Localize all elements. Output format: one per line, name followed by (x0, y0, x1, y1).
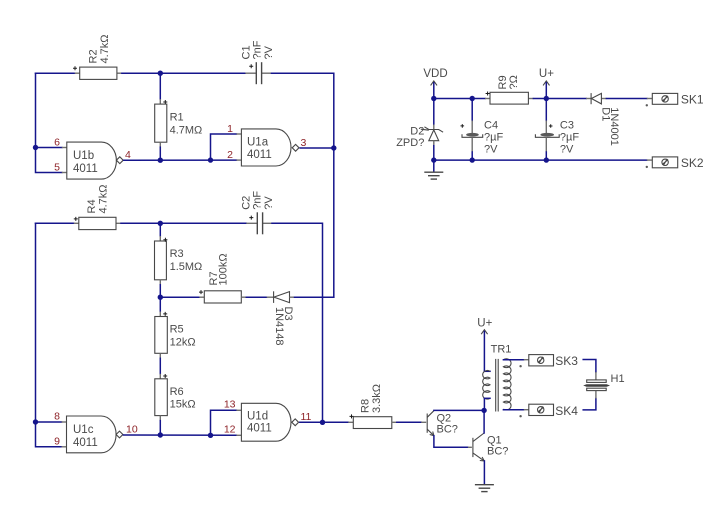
wire U1a output (300, 147, 334, 149)
svg-text:D2: D2 (410, 125, 424, 137)
node U+ at TR1 (477, 317, 492, 371)
diode D3 (267, 291, 334, 345)
svg-text:?V: ?V (484, 144, 498, 156)
zener diode D2 (396, 99, 443, 161)
resistor R1 (155, 73, 203, 160)
wire SK3 to H1 (583, 360, 596, 373)
svg-text:U1b: U1b (73, 150, 94, 162)
junction R1 bottom (158, 158, 163, 163)
junction pin1/pin2 tie (208, 157, 213, 162)
junction U1d out / C2 / R8 (320, 420, 325, 425)
svg-text:U+: U+ (539, 68, 554, 80)
svg-text:U1d: U1d (247, 410, 268, 422)
wire TR1 secondary bottom to SK4 (503, 409, 528, 411)
svg-text:8: 8 (54, 411, 60, 423)
junction R6 bottom (158, 432, 163, 437)
resistor R8 (348, 384, 397, 429)
svg-text:R5: R5 (170, 324, 184, 336)
svg-text:?µF: ?µF (560, 131, 579, 143)
wire Q2 emitter to Q1 base (434, 436, 472, 448)
svg-text:U1a: U1a (247, 136, 269, 148)
capacitor C4 (461, 99, 504, 161)
svg-text:BC?: BC? (487, 446, 508, 458)
resistor R2 (73, 34, 117, 79)
wire Q2 collector net (434, 409, 484, 411)
connector SK1 (646, 92, 704, 106)
transistor Q1 (473, 433, 509, 461)
svg-text:4011: 4011 (247, 423, 272, 435)
svg-text:R3: R3 (170, 248, 184, 260)
junction VDD / top rail (431, 96, 436, 101)
diode D1 (591, 93, 620, 146)
wire U1c output to U1d inputs (124, 410, 242, 435)
junction R2/R1/C1 node (158, 71, 163, 76)
junction Q2C/Q1C/TR1 node (481, 408, 486, 413)
ground at D2 (424, 172, 443, 179)
svg-text:ZPD?: ZPD? (396, 137, 424, 149)
svg-text:2: 2 (227, 149, 233, 161)
svg-text:U1c: U1c (73, 424, 94, 436)
wire left rail oscillator 1 (36, 73, 67, 172)
wire Q1 collector (483, 410, 485, 433)
svg-text:C3: C3 (560, 119, 574, 131)
connector SK3 (519, 354, 578, 368)
svg-text:C4: C4 (484, 119, 498, 131)
op-amp U1a nand gate (241, 129, 299, 166)
svg-text:?µF: ?µF (484, 131, 503, 143)
resistor R6 (155, 374, 196, 435)
earpiece H1 (583, 373, 624, 391)
wire R8 to Q2 base (397, 421, 426, 423)
svg-text:4011: 4011 (73, 437, 98, 449)
junction rail2/pin8 (33, 419, 38, 424)
capacitor C2 (240, 191, 275, 235)
svg-text:SK4: SK4 (555, 404, 578, 418)
svg-text:1.5MΩ: 1.5MΩ (170, 261, 203, 273)
connector SK4 (519, 404, 578, 418)
wire top oscillator 2 (36, 223, 323, 422)
wire D2 to ground (433, 160, 435, 172)
op-amp U1b nand gate (67, 142, 123, 179)
wire U1b output to U1a inputs (124, 134, 242, 160)
svg-text:1: 1 (227, 123, 233, 135)
transistor Q2 (427, 411, 458, 436)
op-amp U1c nand gate (67, 416, 123, 453)
op-amp U1d nand gate (241, 403, 298, 441)
svg-text:TR1: TR1 (491, 344, 512, 356)
svg-text:4.7MΩ: 4.7MΩ (170, 124, 203, 136)
wire top rail (434, 98, 653, 100)
svg-text:?V: ?V (560, 144, 574, 156)
junction pin13/pin12 tie (208, 433, 213, 438)
resistor R9 (486, 75, 529, 104)
ground at Q1 (475, 485, 494, 492)
svg-text:R1: R1 (170, 112, 184, 124)
resistor R5 (155, 297, 196, 374)
svg-text:15kΩ: 15kΩ (170, 398, 196, 410)
junction C3 / bottom rail (544, 157, 549, 162)
svg-text:SK3: SK3 (555, 354, 578, 368)
svg-text:5: 5 (54, 161, 60, 173)
junction R4/R3/C2 node (158, 221, 163, 226)
svg-text:4: 4 (125, 149, 131, 161)
svg-text:13: 13 (224, 398, 236, 410)
capacitor C3 (535, 99, 579, 161)
junction C4 / top rail (470, 96, 475, 101)
resistor R3 (155, 223, 203, 297)
wire U1d output (300, 421, 349, 423)
node U+ top (539, 68, 554, 99)
svg-text:12: 12 (224, 423, 236, 435)
svg-text:11: 11 (301, 411, 312, 423)
capacitor C1 (240, 40, 275, 84)
svg-text:R6: R6 (170, 386, 184, 398)
resistor R4 (74, 184, 116, 229)
junction U1a out / C1 / D3 vertical (331, 145, 336, 150)
svg-text:R9?Ω: R9?Ω (497, 75, 520, 89)
transformer TR1 (483, 344, 512, 412)
node VDD (423, 68, 447, 99)
svg-text:6: 6 (54, 136, 60, 148)
svg-text:10: 10 (126, 423, 138, 435)
svg-text:4011: 4011 (73, 163, 98, 175)
junction R3/R7/R5 node (158, 295, 163, 300)
wire top oscillator 1 (36, 73, 334, 297)
wire SK4 to H1 (583, 399, 596, 410)
svg-text:3: 3 (301, 137, 307, 149)
svg-text:SK1: SK1 (681, 92, 704, 106)
svg-text:1N4001: 1N4001 (608, 107, 620, 146)
wire left rail oscillator 2 (36, 223, 67, 446)
svg-text:SK2: SK2 (681, 156, 704, 170)
svg-text:VDD: VDD (423, 68, 447, 80)
junction D2 / bottom rail (431, 157, 436, 162)
svg-text:BC?: BC? (437, 423, 458, 435)
junction U+ / top rail (544, 96, 549, 101)
wire TR1 secondary top to SK3 (503, 359, 528, 361)
wire bottom rail (434, 159, 653, 161)
svg-text:H1: H1 (611, 373, 625, 385)
svg-text:12kΩ: 12kΩ (170, 336, 196, 348)
junction rail1/pin6 (33, 145, 38, 150)
wire Q1 emitter to ground (483, 461, 485, 484)
connector SK2 (646, 156, 704, 170)
svg-text:1N4148: 1N4148 (273, 307, 285, 346)
junction C4 / bottom rail (470, 157, 475, 162)
svg-text:U+: U+ (477, 317, 492, 329)
resistor R7 (160, 253, 266, 303)
svg-text:4011: 4011 (247, 149, 272, 161)
svg-text:9: 9 (54, 436, 60, 448)
